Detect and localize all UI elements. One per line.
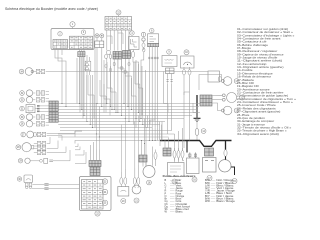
wire to rear turn signal right [199, 75, 222, 91]
rear turn signal 11 [223, 77, 232, 86]
battery connector [205, 148, 214, 156]
headlight 28 [16, 145, 21, 150]
indicator bulbs pair [95, 34, 99, 38]
connector block A below table [107, 51, 111, 55]
rear brake switch 21 [133, 178, 136, 185]
lamp 32 [20, 91, 25, 96]
key switch 4 [130, 31, 134, 35]
long wire y71.5 [49, 71, 209, 73]
headlight harness connector upper [49, 101, 58, 111]
wires dropping to bottom center [120, 125, 122, 173]
ignition coil 6 [150, 28, 154, 32]
lamp 30 [20, 115, 25, 120]
bold battery cable bus [160, 141, 232, 147]
ladder wires [107, 62, 112, 110]
label 1 [70, 22, 75, 27]
left bends of lower buses [75, 131, 82, 137]
horn 20 [120, 178, 123, 185]
battery 17 [203, 158, 217, 173]
label 24 [102, 189, 107, 194]
bold drop to starter [225, 141, 227, 150]
splice ovals on harness [105, 64, 107, 68]
svg-text:34–Clignotant avant (droit): 34–Clignotant avant (droit) [237, 133, 279, 136]
label 23 [102, 179, 107, 184]
tail stop light 12 [227, 93, 237, 103]
left switch box 22 [80, 177, 112, 211]
left switch table [82, 180, 104, 210]
wire bundle from right switch [55, 50, 62, 67]
switch unit U1 right handlebar box [51, 29, 94, 50]
mid-right verticals extra [144, 119, 146, 144]
connector below switch box [78, 52, 85, 57]
front turn signal left 27 [21, 132, 26, 137]
wires from top table [106, 30, 108, 51]
lamp 26 [20, 122, 25, 127]
flasher relay 26 [208, 71, 220, 82]
svg-text:Blanc: Blanc [176, 211, 184, 214]
bold ground lead rear [196, 95, 198, 118]
connector block C below table [123, 51, 131, 59]
flywheel connector [139, 155, 147, 162]
svg-text:W/R: W/R [205, 200, 210, 203]
rear light wires [212, 94, 222, 96]
label 2 [58, 32, 62, 36]
fuel sensor 9 [167, 50, 172, 55]
extra verticals right-mid [161, 125, 163, 141]
speedo wires [33, 184, 80, 186]
right mid verticals [183, 95, 185, 148]
starter motor 15 [224, 150, 227, 157]
sensor wires dashed [167, 78, 169, 84]
label 3 [81, 30, 85, 34]
rear turn signal 13 [223, 106, 232, 115]
position light 29 [18, 159, 22, 163]
CDI wires [164, 141, 166, 149]
wires into left switch box [90, 150, 92, 161]
rear harness connector [200, 95, 212, 106]
inline fuse under key switch [131, 52, 134, 58]
fuse 14 [196, 106, 198, 129]
magneto flywheel 19 [143, 166, 155, 178]
fuel gauge 31 [20, 106, 25, 111]
oil gauge 10 [184, 50, 189, 55]
horizontal bus wires [58, 103, 200, 105]
CDI unit 18 box [168, 163, 185, 177]
diode unit [85, 62, 89, 70]
headlight harness connector lower [49, 112, 58, 122]
svg-text:Schéma électrique du Booster (: Schéma électrique du Booster (modèle ave… [5, 7, 98, 11]
coil pins [148, 47, 150, 62]
extra mid verticals [92, 75, 94, 128]
connector above left switch box [89, 161, 101, 167]
connector block B below table [113, 52, 122, 60]
magneto pins [173, 151, 176, 159]
inline connector 5 [141, 32, 145, 36]
gauge pins [183, 70, 186, 76]
CDI connector [163, 148, 171, 156]
label 22 [95, 211, 100, 216]
switch table right [70, 36, 93, 49]
svg-text:Blanc / Rouge: Blanc / Rouge [216, 200, 235, 203]
switch unit U2 top table [116, 10, 121, 15]
label 25 [102, 200, 107, 205]
speedo bulbs [25, 183, 28, 186]
front turn signal right 34 [19, 69, 24, 74]
bold drop to relay [186, 141, 188, 153]
staircase bends [118, 58, 124, 104]
speedometer unit [17, 177, 21, 181]
lamp 33 [20, 98, 25, 103]
vertical harness wires [76, 58, 78, 104]
switch table left [53, 40, 68, 49]
junction dots [61, 103, 62, 104]
starter relay 16 [187, 158, 200, 174]
